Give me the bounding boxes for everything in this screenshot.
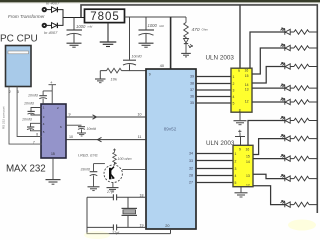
svg-text:39: 39 [190,75,194,79]
svg-text:12: 12 [245,99,249,103]
svg-text:ULN 2003: ULN 2003 [206,55,235,62]
svg-text:10mfd: 10mfd [22,118,33,122]
svg-text:28: 28 [189,174,193,178]
svg-text:9: 9 [69,112,71,116]
svg-text:Ohm: Ohm [202,28,209,32]
svg-text:20: 20 [165,224,169,228]
svg-text:34: 34 [189,152,193,156]
svg-text:8: 8 [239,108,241,112]
svg-text:+: + [50,80,53,85]
svg-text:2: 2 [233,82,235,86]
svg-text:4: 4 [233,95,235,99]
svg-text:1000: 1000 [148,23,158,28]
svg-text:3: 3 [233,88,235,92]
svg-text:27pf: 27pf [106,190,115,194]
svg-text:12: 12 [246,183,250,187]
svg-text:MAX 232: MAX 232 [6,163,46,174]
svg-text:7805: 7805 [90,11,120,23]
svg-text:mfd: mfd [88,24,93,28]
svg-text:16: 16 [245,69,249,73]
svg-text:ULN 2003: ULN 2003 [206,140,235,147]
svg-text:10mfd: 10mfd [87,127,97,131]
svg-text:13: 13 [246,174,250,178]
svg-text:In 4007: In 4007 [44,30,58,35]
svg-text:15: 15 [246,155,250,159]
svg-text:10: 10 [69,135,73,139]
svg-text:I.RED. EYE: I.RED. EYE [78,154,98,158]
svg-text:16: 16 [246,147,250,151]
svg-text:10mfd: 10mfd [28,93,39,97]
svg-text:mfd: mfd [159,24,164,28]
svg-text:5: 5 [233,101,235,105]
svg-text:470: 470 [192,27,200,33]
svg-text:RS 232 com port: RS 232 com port [1,106,5,129]
svg-text:9: 9 [238,69,240,73]
svg-text:33mfd: 33mfd [81,168,91,172]
svg-text:40: 40 [160,64,164,68]
svg-text:2: 2 [9,90,11,94]
svg-text:2: 2 [235,160,237,164]
svg-text:1: 1 [233,75,235,79]
svg-text:10mfd: 10mfd [24,102,35,106]
svg-text:32: 32 [189,167,193,171]
svg-text:10: 10 [138,113,142,117]
svg-text:10k: 10k [111,76,118,81]
svg-text:1: 1 [235,152,237,156]
svg-text:10mfd: 10mfd [132,54,143,58]
svg-text:1000: 1000 [76,24,86,29]
svg-text:37: 37 [190,88,194,92]
svg-text:9: 9 [239,148,241,152]
svg-text:38: 38 [190,81,194,85]
svg-text:35: 35 [190,101,194,105]
svg-text:From Transformer: From Transformer [8,14,45,19]
svg-text:3: 3 [235,167,237,171]
svg-text:3: 3 [17,90,19,94]
svg-text:27: 27 [189,181,193,185]
svg-text:15: 15 [245,74,249,78]
svg-text:9: 9 [149,72,151,76]
svg-text:33: 33 [189,159,193,163]
svg-text:PC CPU: PC CPU [0,34,38,45]
svg-text:4: 4 [235,174,237,178]
svg-text:15: 15 [51,152,55,156]
svg-text:27pf: 27pf [111,231,120,235]
svg-text:11: 11 [138,135,142,139]
svg-text:8: 8 [36,132,38,136]
svg-text:13: 13 [245,88,249,92]
svg-text:100 ohm: 100 ohm [118,157,132,161]
svg-text:5: 5 [235,181,237,185]
svg-text:89v52: 89v52 [164,127,177,132]
svg-text:In 4007: In 4007 [46,1,60,6]
svg-text:14: 14 [246,160,250,164]
svg-text:14: 14 [245,83,249,87]
svg-text:36: 36 [190,95,194,99]
